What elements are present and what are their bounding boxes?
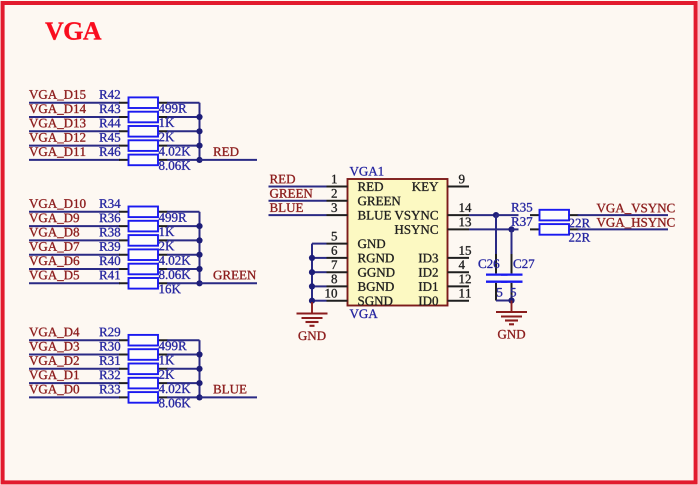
value 2K (R38): [159, 242, 174, 251]
wire net VGA_D1: [29, 382, 120, 384]
designator R33: [99, 385, 120, 394]
net label VGA_D3: [29, 342, 79, 352]
designator R41: [99, 271, 120, 280]
net label RED: [270, 175, 295, 184]
value 16K (R41): [160, 285, 181, 294]
net label VGA_D4: [29, 328, 79, 338]
resistor R36: [119, 221, 168, 232]
wire R32 to bus: [167, 382, 200, 384]
wire R38 to bus: [167, 239, 200, 241]
wire net VGA_D0: [29, 396, 120, 398]
junction VSYNC: [493, 212, 499, 218]
junction at bus y=240.4: [196, 237, 202, 243]
wire R43 to bus: [167, 116, 200, 118]
wire gnd bus to pin 8: [312, 285, 327, 287]
resistor R33: [119, 392, 168, 403]
designator R40: [99, 256, 120, 265]
designator R31: [99, 356, 120, 365]
designator R37: [511, 217, 532, 226]
wire R42 to bus: [167, 102, 200, 104]
ground symbol (right): [496, 301, 527, 339]
designator R44: [99, 119, 120, 128]
junction caps gnd: [508, 297, 514, 303]
net label GREEN: [270, 189, 313, 198]
net label VGA_D1: [29, 371, 79, 381]
title VGA: [45, 22, 101, 40]
junction at bus y=368.8: [196, 366, 202, 372]
pin 3 (BLUE) stub: [327, 214, 348, 216]
net label GREEN: [214, 271, 257, 280]
value 5 (C26): [497, 288, 502, 297]
wire net VGA_D15: [29, 102, 120, 104]
wire gnd bus to pin 5: [312, 243, 327, 245]
pin 13 (HSYNC) stub: [448, 228, 470, 230]
pin number 4: [459, 260, 465, 269]
net label VGA_D0: [29, 385, 79, 395]
wire junction to R37: [512, 228, 519, 230]
net label VGA_D9: [29, 214, 79, 224]
value 8.06K (R46): [159, 161, 191, 170]
designator R43: [99, 104, 120, 113]
pin name GND: [358, 239, 385, 248]
pin name GGND: [358, 268, 395, 277]
junction gnd bus y=286.4: [309, 283, 315, 289]
value 22R (R35): [569, 219, 590, 228]
designator R36: [99, 214, 120, 223]
net label BLUE: [213, 385, 246, 394]
designator R32: [99, 371, 120, 380]
pin name BLUE: [358, 211, 391, 220]
net label RED: [213, 147, 238, 156]
junction at bus y=397.4: [196, 394, 202, 400]
value 2K (R31): [159, 370, 174, 379]
wire junction to C26: [495, 215, 497, 254]
pin number 15: [460, 246, 471, 255]
designator R30: [99, 342, 120, 351]
junction at bus y=131.3: [196, 128, 202, 134]
resistor R42: [119, 97, 168, 108]
wire net VGA_D8: [29, 239, 120, 241]
wire net VGA_D11: [29, 159, 120, 161]
net label VGA_D5: [29, 271, 79, 281]
pin 10 (SGND) stub: [327, 300, 348, 302]
wire net VGA_D5: [29, 282, 120, 284]
net label VGA_D8: [29, 228, 79, 238]
designator R29: [99, 328, 120, 337]
pin number 1: [332, 175, 337, 184]
pin number 12: [460, 275, 471, 284]
pin 2 (GREEN) stub: [327, 200, 348, 202]
wire net RED to pin: [269, 186, 327, 188]
pin name ID2: [419, 268, 438, 277]
junction at bus y=354.5: [196, 351, 202, 357]
wire R31 to bus: [167, 368, 200, 370]
wire net VGA_D4: [29, 339, 120, 341]
wire net VGA_D12: [29, 145, 120, 147]
designator C26: [479, 259, 500, 268]
resistor R43: [119, 112, 168, 123]
pin 7 (GGND) stub: [327, 271, 348, 273]
designator R45: [99, 133, 120, 142]
value 1K (R43): [160, 118, 175, 127]
value 4.02K (R32): [159, 384, 191, 393]
pin 5 (GND) stub: [327, 243, 348, 245]
pin name VSYNC: [395, 211, 438, 220]
resistor R35: [530, 210, 579, 221]
designator R38: [99, 228, 120, 237]
value 4.02K (R39): [159, 256, 191, 265]
value 8.06K (R40): [159, 270, 191, 279]
wire junction to R35: [496, 214, 519, 216]
wire R40 to bus: [167, 268, 200, 270]
value 499R (R42): [159, 104, 187, 113]
pin name BGND: [358, 282, 394, 291]
junction HSYNC: [508, 226, 514, 232]
junction at bus y=117.0: [196, 114, 202, 120]
junction at bus y=226.1: [196, 223, 202, 229]
value 22R (R37): [569, 233, 590, 242]
resistor R45: [119, 140, 168, 151]
capacitor C27: [501, 254, 523, 301]
wire net VGA_D10: [29, 211, 120, 213]
net label VGA_D2: [29, 356, 79, 366]
pin 9 (KEY) stub: [448, 186, 470, 188]
pin 4 (ID2) stub: [448, 271, 470, 273]
pin number 9: [459, 175, 465, 184]
resistor R29: [119, 335, 168, 346]
pin number 7: [332, 261, 337, 270]
pin number 11: [460, 289, 471, 298]
pin name RGND: [358, 254, 394, 263]
resistor R34: [119, 207, 168, 218]
capacitor C26: [486, 254, 508, 301]
resistor R46: [119, 155, 168, 166]
pin 8 (BGND) stub: [327, 285, 348, 287]
resistor R32: [119, 378, 168, 389]
connector VGA1 body: [348, 179, 448, 306]
wire net VGA_D13: [29, 130, 120, 132]
pin name ID0: [419, 297, 438, 306]
bus wire GREEN group: [199, 212, 201, 283]
pin name KEY: [412, 182, 438, 191]
resistor R44: [119, 126, 168, 137]
junction at bus y=159.9: [196, 157, 202, 163]
designator R46: [99, 147, 120, 156]
pin 11 (ID0) stub: [448, 300, 470, 302]
bus wire BLUE group: [199, 340, 201, 397]
net label VGA_D14: [29, 104, 86, 114]
resistor R30: [119, 349, 168, 360]
designator R35: [511, 203, 532, 212]
designator R42: [99, 90, 120, 99]
wire net VGA_D3: [29, 354, 120, 356]
pin name GREEN: [358, 197, 401, 206]
wire net VGA_D6: [29, 268, 120, 270]
wire R46 to bus: [167, 159, 200, 161]
pin name RED: [358, 182, 383, 191]
value 1K (R36): [160, 227, 175, 236]
wire C26 to C27 bottom: [496, 300, 512, 302]
wire net VGA_D2: [29, 368, 120, 370]
pin 12 (ID1) stub: [448, 285, 470, 287]
junction gnd bus y=300.7: [309, 298, 315, 304]
wire net BLUE to pin: [269, 214, 327, 216]
resistor R41: [119, 278, 168, 289]
pin 14 (VSYNC) stub: [448, 214, 470, 216]
wire net RED: [200, 159, 258, 161]
pin number 2: [332, 189, 337, 198]
wire net BLUE: [200, 396, 258, 398]
wire junction to C27: [511, 229, 513, 254]
designator R34: [99, 199, 120, 208]
designator R39: [99, 242, 120, 251]
wire net VGA_VSYNC: [578, 214, 669, 216]
net label VGA_D6: [29, 256, 79, 266]
net label VGA_VSYNC: [597, 204, 675, 214]
wire net GREEN to pin: [269, 200, 327, 202]
net label VGA_D15: [29, 90, 85, 100]
pin 1 (RED) stub: [327, 186, 348, 188]
net label VGA_HSYNC: [597, 218, 675, 228]
designator VGA1: [350, 167, 384, 176]
value 5 (C27): [511, 288, 516, 297]
pin name HSYNC: [395, 225, 438, 234]
pin name ID3: [419, 254, 438, 263]
value 499R (R34): [159, 213, 187, 222]
junction at bus y=254.7: [196, 252, 202, 258]
net label VGA_D10: [29, 199, 86, 209]
wire R44 to bus: [167, 130, 200, 132]
wire R41 to bus: [167, 282, 200, 284]
junction gnd bus y=257.9: [309, 255, 315, 261]
net label VGA_D13: [29, 119, 85, 129]
net label VGA_D7: [29, 242, 79, 252]
wire net GREEN: [200, 282, 258, 284]
ground symbol (left): [297, 302, 328, 340]
pin number 3: [332, 203, 337, 212]
wire R29 to bus: [167, 339, 200, 341]
junction at bus y=283.3: [196, 280, 202, 286]
net label BLUE: [270, 203, 303, 212]
wire pin14 to junction: [469, 214, 496, 216]
resistor R38: [119, 235, 168, 246]
wire R34 to bus: [167, 211, 200, 213]
pin number 5: [332, 232, 337, 241]
wire R45 to bus: [167, 145, 200, 147]
value 499R (R29): [159, 342, 187, 351]
pin number 6: [332, 246, 338, 255]
pin number 13: [460, 218, 471, 227]
wire R30 to bus: [167, 354, 200, 356]
value 4.02K (R45): [159, 147, 191, 156]
junction at bus y=383.1: [196, 380, 202, 386]
pin name ID1: [419, 282, 438, 291]
wire net VGA_D7: [29, 254, 120, 256]
value 2K (R44): [159, 133, 174, 142]
pin number 10: [326, 289, 337, 298]
wire pin13 to junction: [469, 228, 512, 230]
wire gnd bus to pin 6: [312, 257, 327, 259]
bus wire RED group: [199, 103, 201, 160]
pin number 14: [460, 203, 472, 212]
resistor R39: [119, 249, 168, 260]
resistor R40: [119, 264, 168, 275]
value 1K (R30): [160, 356, 175, 365]
wire R33 to bus: [167, 396, 200, 398]
resistor R31: [119, 364, 168, 375]
net label VGA_D12: [29, 133, 85, 143]
wire net VGA_D9: [29, 225, 120, 227]
wire net VGA_D14: [29, 116, 120, 118]
net label VGA_D11: [29, 147, 85, 157]
pin 15 (ID3) stub: [448, 257, 470, 259]
junction at bus y=145.6: [196, 143, 202, 149]
junction at bus y=269.0: [196, 266, 202, 272]
pin name SGND: [358, 297, 392, 306]
wire R36 to bus: [167, 225, 200, 227]
value 8.06K (R33): [159, 399, 191, 408]
wire net VGA_HSYNC: [578, 228, 669, 230]
wire gnd bus to pin 7: [312, 271, 327, 273]
wire gnd bus vertical: [311, 244, 313, 302]
pin number 8: [332, 275, 338, 284]
wire R39 to bus: [167, 254, 200, 256]
wire gnd bus to pin 10: [312, 300, 327, 302]
resistor R37: [530, 224, 579, 235]
designator C27: [514, 259, 535, 268]
comment VGA: [350, 309, 378, 318]
pin 6 (RGND) stub: [327, 257, 348, 259]
junction gnd bus y=272.2: [309, 269, 315, 275]
